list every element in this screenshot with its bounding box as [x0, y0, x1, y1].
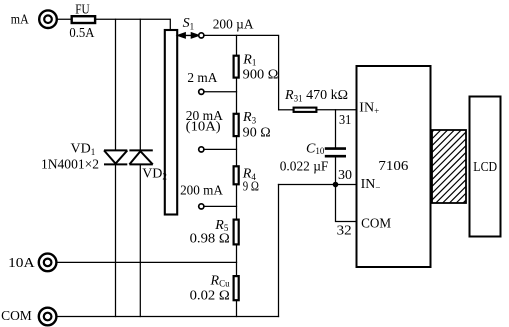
resistor R5 [234, 220, 239, 245]
wire: vertical drop x=115.5 lower (VD1 to bottom rail) [115, 164, 117, 316]
svg-text:900 Ω: 900 Ω [243, 68, 279, 83]
svg-text:0.022 µF: 0.022 µF [280, 160, 329, 175]
terminal mA [39, 10, 57, 28]
resistor RCu [234, 276, 239, 300]
svg-text:0.5A: 0.5A [69, 26, 95, 41]
svg-text:30: 30 [338, 168, 352, 183]
IC 7106 box [357, 66, 431, 267]
switch contact 2mA [199, 89, 204, 94]
wire: fuse to switch top corner [96, 19, 170, 30]
wire: R31 left lead [279, 109, 293, 111]
resistor R31 [294, 108, 317, 112]
svg-text:32: 32 [337, 223, 352, 238]
resistor R1 [234, 56, 239, 78]
wire: IN- node down to COM pin 32 [336, 185, 357, 222]
wire: IN- pin 30 horizontal [279, 184, 357, 186]
switch contact 200uA [199, 33, 204, 38]
wire: vertical drop x=140.3 upper (to VD2) [139, 19, 141, 150]
wire: resistor chain vertical [236, 35, 238, 316]
wire: 10A terminal line [57, 261, 237, 263]
wire: 20mA contact to chain [204, 148, 237, 150]
diode VD1 [104, 150, 127, 164]
LCD box [470, 97, 501, 237]
terminal COM [39, 308, 57, 326]
svg-text:200 µA: 200 µA [213, 18, 255, 33]
switch contact 200mA [199, 204, 204, 209]
svg-text:1N4001×2: 1N4001×2 [41, 157, 99, 172]
svg-text:0.02 Ω: 0.02 Ω [190, 289, 230, 304]
resistor R3 [234, 114, 239, 136]
resistor R4 [234, 166, 239, 184]
svg-text:7106: 7106 [378, 159, 408, 174]
svg-text:COM: COM [1, 309, 32, 324]
svg-text:2 mA: 2 mA [187, 71, 218, 86]
wire: C10 bottom branch to IN- node [335, 158, 337, 185]
switch wiper double arrow [178, 33, 199, 38]
svg-text:COM: COM [361, 217, 392, 232]
wire: R31 right lead to 7106 pin 31 [317, 109, 356, 111]
fuse FU [72, 16, 95, 23]
svg-text:0.98 Ω: 0.98 Ω [190, 232, 230, 247]
svg-text:9 Ω: 9 Ω [243, 179, 259, 194]
svg-text:(10A): (10A) [186, 119, 221, 134]
wire: 2mA contact to chain [204, 91, 237, 93]
wire: bottom COM rail [57, 316, 279, 318]
svg-text:31: 31 [339, 113, 351, 128]
terminal 10A [39, 254, 57, 272]
switch contact 20mA [199, 147, 204, 152]
wire: mA terminal to fuse [57, 18, 72, 20]
wire: vertical x=278.5 from IN- wire down to bottom rail [278, 185, 280, 317]
svg-text:10A: 10A [8, 256, 35, 271]
wire: vertical drop x=115.5 upper (to VD1) [115, 19, 117, 150]
diode VD2 [129, 150, 152, 164]
svg-text:mA: mA [11, 13, 30, 28]
hatched connector block [361, 130, 509, 203]
junction dot IN-/C10/COM [333, 182, 339, 188]
svg-text:200 mA: 200 mA [180, 184, 224, 199]
wire: vertical drop x=140.3 lower (VD2 to bottom rail) [139, 164, 141, 316]
svg-text:LCD: LCD [473, 160, 497, 175]
wire: 200uA contact to R31 corner [204, 35, 279, 109]
capacitor C10 plates [325, 149, 346, 157]
switch S1 bar [165, 30, 177, 215]
wire: C10 top branch [335, 110, 337, 148]
svg-text:90 Ω: 90 Ω [243, 125, 271, 140]
wire: 200mA contact to chain [204, 205, 237, 207]
svg-text:FU: FU [75, 2, 89, 17]
